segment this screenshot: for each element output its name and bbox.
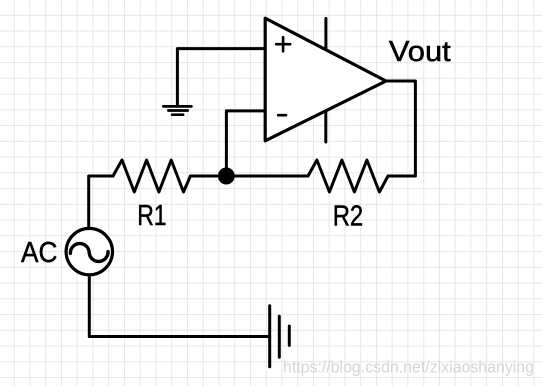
svg-text:R2: R2 <box>333 201 364 233</box>
op-amp U1 <box>265 18 386 141</box>
node A junction dot <box>218 168 235 185</box>
wire node A segment <box>190 175 308 178</box>
AC source V1 <box>66 228 112 274</box>
svg-text:https://blog.csdn.net/zlxiaosh: https://blog.csdn.net/zlxiaoshanying <box>283 359 534 377</box>
wire inverting input to node A <box>226 111 265 176</box>
op-amp minus label <box>278 114 286 117</box>
op-amp plus label <box>276 37 290 51</box>
svg-text:R1: R1 <box>137 200 166 232</box>
ground (bottom, rotated right) <box>270 306 290 367</box>
ground (top-left, at + input) <box>163 106 191 114</box>
AC sine symbol <box>70 244 108 262</box>
wire noninverting input to ground <box>177 49 265 106</box>
wire left segment to R1 <box>89 176 113 229</box>
svg-text:Vout: Vout <box>389 36 451 68</box>
resistor R2 <box>308 160 388 192</box>
op-amp positive power pin <box>324 18 327 48</box>
svg-text:AC: AC <box>21 237 57 269</box>
resistor R1 <box>113 160 190 192</box>
wire AC source to bottom ground <box>89 275 268 337</box>
wire feedback R2 to output <box>386 81 415 176</box>
op-amp negative power pin <box>324 111 327 142</box>
